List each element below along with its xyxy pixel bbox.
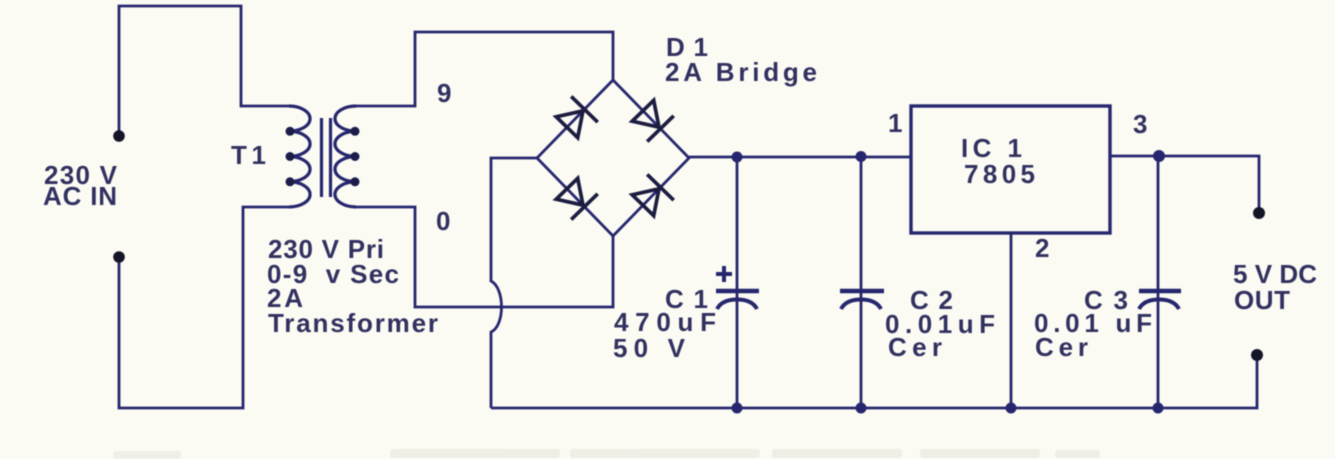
wire: IC pin 2 to ground rail [1010,233,1013,408]
wire: secondary bottom (0) to bridge bottom corner [356,207,613,307]
wire: bridge right corner to IC pin 1 (DC+ rail) [689,156,911,159]
wire: secondary top (9) to bridge top corner [356,32,613,106]
IC U1 7805 regulator box [911,106,1110,233]
svg-text:2: 2 [1035,233,1049,263]
svg-text:7805: 7805 [964,159,1035,189]
junction node: C3 bottom [1153,403,1164,414]
svg-text:AC IN: AC IN [43,181,117,211]
label: 5 V DC OUT [1233,259,1317,315]
wire: bridge left corner to ground rail with hop over horizontal wire [491,158,537,408]
junction node: C1 bottom [732,403,743,414]
T1 secondary winding [335,106,356,207]
T1 primary winding [289,106,310,207]
wire: IC pin 3 to output [1110,156,1259,210]
svg-text:2A Bridge: 2A Bridge [665,57,817,87]
label: IC 1 7805 [961,133,1035,189]
junction node: pin2 ground [1006,403,1017,414]
svg-text:Transformer: Transformer [268,308,438,338]
svg-text:9: 9 [437,78,451,108]
wire: C1 leads [736,157,739,408]
svg-text:470uF: 470uF [614,307,716,337]
diode D1c (left to bottom) [556,178,598,219]
label: D1 2A Bridge [665,32,817,87]
svg-text:OUT: OUT [1234,285,1290,315]
junction node: C2 bottom [856,403,867,414]
terminal dot: DC output minus [1251,349,1263,361]
capacitor C3 (0.01uF) [1139,291,1181,309]
svg-text:3: 3 [1133,109,1147,139]
label: C2 values [885,285,995,362]
label: transformer ratings [267,234,438,338]
wire: bottom-left loop from AC bottom terminal to transformer primary bottom [119,207,289,408]
capacitor C1 (polarized 470uF) [716,266,759,309]
wire: C3 leads [1157,156,1160,409]
junction node: C2 top [856,151,867,162]
svg-text:Cer: Cer [888,332,942,362]
capacitor C2 (0.01uF) [840,291,884,309]
label: 230 V AC IN [43,160,118,211]
label: C3 values [1034,285,1152,362]
bridge rectifier D1 diamond [537,80,689,236]
label: C1 values [613,284,716,363]
wire: ground rail [491,361,1257,408]
svg-text:1: 1 [888,108,902,138]
faint cropped caption remnants at bottom [113,449,1100,459]
T1 winding cusp blobs [286,127,360,187]
terminal dot: AC input bottom [113,251,125,263]
wire: C2 leads [860,157,863,408]
terminal dot: DC output plus [1253,207,1265,219]
terminal dot: AC input top [113,130,125,142]
diode D1a (left to top) [556,96,598,137]
wire: top-left loop from AC top terminal to transformer primary top [119,6,289,136]
svg-text:0: 0 [436,206,450,236]
diode D1d (bottom to right) [632,174,674,215]
diode D1b (top to right) [632,100,674,141]
junction node: C1 top [732,152,743,163]
svg-text:50 V: 50 V [613,333,686,363]
junction node: C3 top [1153,150,1165,162]
transformer T1 [289,106,356,207]
T1 core [320,118,323,197]
svg-text:Cer: Cer [1035,332,1088,362]
svg-text:T1: T1 [231,140,266,170]
